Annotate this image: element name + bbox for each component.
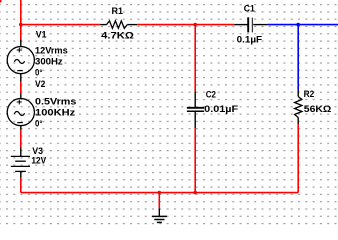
svg-text:0°: 0° bbox=[35, 118, 43, 128]
svg-text:100KHz: 100KHz bbox=[35, 108, 76, 118]
svg-text:C2: C2 bbox=[206, 90, 216, 100]
svg-text:4.7KΩ: 4.7KΩ bbox=[101, 30, 134, 40]
svg-text:0.5Vrms: 0.5Vrms bbox=[35, 97, 76, 107]
svg-text:0°: 0° bbox=[35, 67, 43, 77]
svg-text:300Hz: 300Hz bbox=[35, 56, 63, 66]
svg-text:V2: V2 bbox=[35, 79, 45, 89]
svg-text:C1: C1 bbox=[244, 4, 255, 14]
svg-text:12V: 12V bbox=[31, 155, 46, 165]
svg-text:0.1µF: 0.1µF bbox=[237, 35, 263, 45]
svg-text:V1: V1 bbox=[36, 29, 47, 39]
svg-text:56KΩ: 56KΩ bbox=[304, 104, 332, 114]
svg-text:12Vrms: 12Vrms bbox=[35, 45, 68, 55]
svg-text:R1: R1 bbox=[112, 6, 124, 16]
svg-text:0.01µF: 0.01µF bbox=[204, 104, 239, 114]
svg-text:R2: R2 bbox=[304, 89, 315, 99]
